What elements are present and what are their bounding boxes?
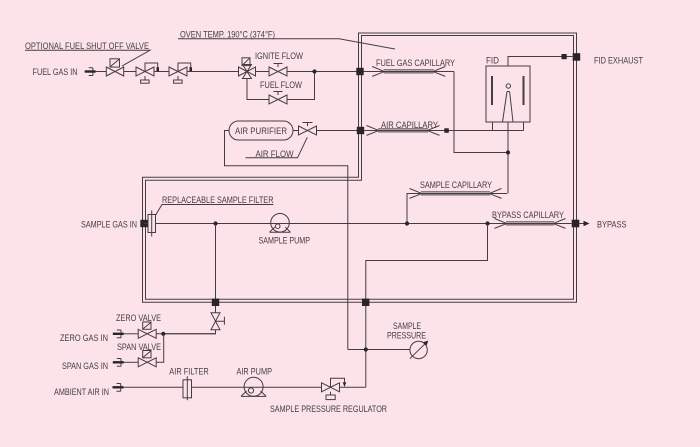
svg-text:OPTIONAL FUEL SHUT OFF VALVE: OPTIONAL FUEL SHUT OFF VALVE xyxy=(25,41,149,51)
svg-text:SPAN VALVE: SPAN VALVE xyxy=(117,342,161,352)
label OPTIONAL FUEL SHUT OFF VALVE xyxy=(25,41,149,51)
node gauge tee xyxy=(364,347,368,351)
union fitting air line xyxy=(444,128,449,133)
wire span inlet to valve xyxy=(124,361,138,363)
valve zero solenoid xyxy=(138,322,156,338)
wire air filter to pump and regulator xyxy=(192,386,322,388)
wire ambient inlet to air filter xyxy=(124,386,184,388)
svg-text:ZERO GAS IN: ZERO GAS IN xyxy=(60,333,108,343)
label FUEL GAS IN xyxy=(33,67,78,77)
capillary air xyxy=(367,126,440,136)
wire FID exhaust xyxy=(508,57,573,67)
capillary bypass xyxy=(495,219,566,229)
wire sample shutoff drop xyxy=(215,224,217,300)
valve fuel shut-off xyxy=(106,59,123,76)
wire regulator2 to 3-way valve xyxy=(187,71,239,73)
wire main sample line xyxy=(156,223,572,225)
oven enclosure outer wall xyxy=(143,33,577,302)
filter replaceable sample xyxy=(144,211,156,237)
label AMBIENT AIR IN xyxy=(54,387,109,397)
wire purifier to air flow valve xyxy=(293,130,299,132)
label AIR FILTER xyxy=(169,367,209,377)
bulkhead fitting sample shutoff xyxy=(212,299,219,306)
wire fuel flow branch xyxy=(247,79,269,100)
bulkhead fitting bypass out xyxy=(572,220,580,228)
svg-text:SAMPLE PUMP: SAMPLE PUMP xyxy=(259,235,311,245)
detector FID xyxy=(486,66,530,122)
arrow bypass outlet xyxy=(579,221,589,226)
span gas inlet fitting xyxy=(113,359,124,367)
valve ignite flow xyxy=(269,64,287,77)
valve fuel flow xyxy=(269,92,287,105)
wire purifier feed loop xyxy=(225,131,348,350)
node zero span junction xyxy=(161,332,165,336)
svg-text:SAMPLE GAS IN: SAMPLE GAS IN xyxy=(81,219,137,229)
svg-text:IGNITE FLOW: IGNITE FLOW xyxy=(255,51,303,61)
valve sample shutoff needle xyxy=(163,306,224,334)
bulkhead fitting sample gas xyxy=(140,220,147,227)
valve air flow xyxy=(299,123,317,136)
label ZERO GAS IN xyxy=(60,333,108,343)
oven enclosure inner wall xyxy=(146,36,574,300)
wire fuel inside oven xyxy=(364,71,455,73)
node bypass return tee xyxy=(485,221,489,225)
svg-text:AIR PUMP: AIR PUMP xyxy=(237,366,273,376)
svg-text:AIR CAPILLARY: AIR CAPILLARY xyxy=(381,120,438,130)
label BYPASS xyxy=(597,219,627,229)
wire ignite valve to junction xyxy=(287,71,357,73)
pressure regulator 2 xyxy=(169,63,192,83)
node sample capillary tee xyxy=(405,221,409,225)
solenoid 3-way valve xyxy=(239,58,256,79)
zero gas inlet fitting xyxy=(113,330,124,338)
label FID EXHAUST xyxy=(594,55,643,65)
svg-text:FUEL GAS CAPILLARY: FUEL GAS CAPILLARY xyxy=(376,58,455,68)
label REPLACEABLE SAMPLE FILTER xyxy=(162,195,274,205)
svg-text:BYPASS CAPILLARY: BYPASS CAPILLARY xyxy=(492,210,564,220)
svg-text:AIR PURIFIER: AIR PURIFIER xyxy=(235,126,287,136)
bulkhead fitting fuel into oven xyxy=(356,68,363,75)
wire 3way to ignite valve xyxy=(256,71,270,73)
svg-text:BYPASS: BYPASS xyxy=(597,219,627,229)
gauge sample pressure xyxy=(410,341,429,359)
label SPAN VALVE xyxy=(117,342,161,352)
wire zero valve to junction xyxy=(156,333,215,335)
union fitting exhaust xyxy=(562,54,567,59)
svg-text:AIR FILTER: AIR FILTER xyxy=(169,367,209,377)
label AIR FLOW xyxy=(256,149,294,159)
label AIR PUMP xyxy=(237,366,273,376)
svg-text:REPLACEABLE SAMPLE FILTER: REPLACEABLE SAMPLE FILTER xyxy=(162,195,274,205)
capillary sample xyxy=(410,189,502,199)
label OVEN TEMP xyxy=(180,29,275,39)
wire fuel drop to mixer xyxy=(454,72,508,153)
wire span valve up to zero line xyxy=(156,334,164,363)
node sample valve tee xyxy=(213,221,217,225)
label ZERO VALVE xyxy=(116,313,161,323)
label SAMPLE PRESSURE REGULATOR xyxy=(270,404,387,414)
svg-text:PRESSURE: PRESSURE xyxy=(387,330,426,340)
fuel inlet fitting xyxy=(85,68,96,76)
wire regulator to riser xyxy=(340,386,366,388)
pressure regulator 1 xyxy=(136,63,159,83)
wire FID flame jet feed xyxy=(507,122,509,194)
bulkhead fitting FID exhaust xyxy=(573,53,581,61)
label SAMPLE PRESSURE xyxy=(387,321,426,340)
node fuel branch junction xyxy=(312,69,316,73)
wire fuel valve up to junction xyxy=(287,72,315,100)
pump sample xyxy=(270,214,291,233)
svg-text:FID: FID xyxy=(486,56,499,66)
svg-text:SPAN GAS IN: SPAN GAS IN xyxy=(62,361,108,371)
wire sample capillary branch xyxy=(407,194,507,224)
svg-text:FUEL GAS IN: FUEL GAS IN xyxy=(33,67,78,77)
svg-text:ZERO VALVE: ZERO VALVE xyxy=(116,313,161,323)
label FID xyxy=(486,56,499,66)
wire shutoff to regulator1 xyxy=(124,71,136,73)
label SAMPLE CAPILLARY xyxy=(420,180,492,190)
svg-text:SAMPLE PRESSURE REGULATOR: SAMPLE PRESSURE REGULATOR xyxy=(270,404,387,414)
label IGNITE FLOW xyxy=(255,51,303,61)
capillary fuel gas xyxy=(372,67,445,77)
wire air valve to oven xyxy=(317,130,358,132)
filter air xyxy=(183,376,192,400)
wire air inside oven xyxy=(364,130,523,132)
label AIR PURIFIER xyxy=(235,126,287,136)
wire gauge branch xyxy=(348,349,410,351)
regulator sample pressure xyxy=(322,378,347,399)
svg-text:AMBIENT AIR IN: AMBIENT AIR IN xyxy=(54,387,109,397)
label BYPASS CAPILLARY xyxy=(492,210,564,220)
label SPAN GAS IN xyxy=(62,361,108,371)
ambient air inlet fitting xyxy=(113,384,124,392)
label FUEL FLOW xyxy=(260,80,302,90)
node mixer junction xyxy=(506,150,510,154)
label SAMPLE PUMP xyxy=(259,235,311,245)
label SAMPLE GAS IN xyxy=(81,219,137,229)
air purifier vessel xyxy=(229,121,293,140)
svg-text:OVEN TEMP. 190°C (374°F): OVEN TEMP. 190°C (374°F) xyxy=(180,29,275,39)
valve span solenoid xyxy=(138,351,156,367)
label AIR CAPILLARY xyxy=(381,120,438,130)
bulkhead fitting regulated air xyxy=(362,299,369,306)
svg-text:FUEL FLOW: FUEL FLOW xyxy=(260,80,302,90)
wire bypass return loop xyxy=(366,224,488,300)
wire fuel inlet to shutoff xyxy=(96,71,107,73)
label FUEL GAS CAPILLARY xyxy=(376,58,455,68)
wire zero inlet to valve xyxy=(124,333,138,335)
wire FID chamber stubs to air line xyxy=(493,122,524,131)
svg-text:SAMPLE CAPILLARY: SAMPLE CAPILLARY xyxy=(420,180,492,190)
wire regulated air riser xyxy=(365,306,367,387)
wire regulator1 to regulator2 xyxy=(154,71,169,73)
pump air xyxy=(241,377,266,396)
bulkhead fitting air into oven xyxy=(357,127,364,134)
svg-text:FID EXHAUST: FID EXHAUST xyxy=(594,55,643,65)
